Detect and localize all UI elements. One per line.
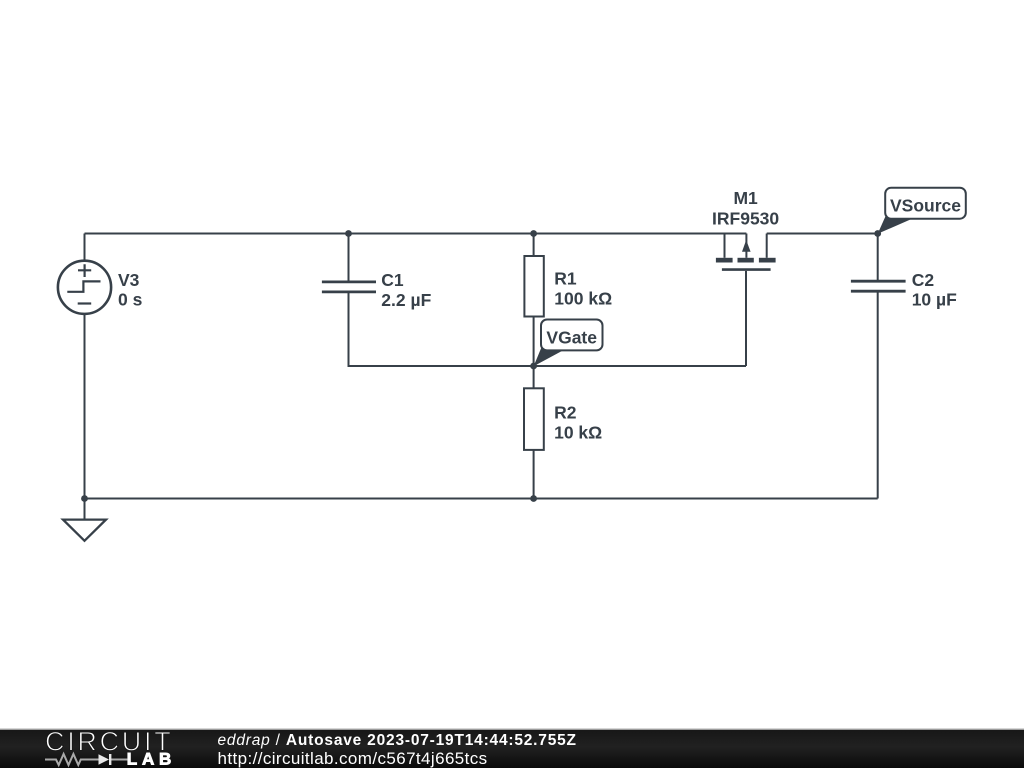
svg-text:M1IRF9530: M1IRF9530: [712, 188, 779, 228]
svg-text:http://circuitlab.com/c567t4j6: http://circuitlab.com/c567t4j665tcs: [218, 749, 488, 768]
resistor R2: [524, 388, 544, 450]
transistor M1 PMOS body: [716, 234, 776, 270]
svg-text:VSource: VSource: [890, 196, 961, 216]
logo resistor-diode squiggle: [45, 754, 128, 765]
wire R1 top lead: [533, 234, 535, 257]
svg-text:C210 µF: C210 µF: [912, 270, 957, 310]
capacitor C2: [851, 281, 906, 291]
wire C1 bottom lead to node VGate: [349, 293, 747, 366]
junction dot C1 top: [345, 230, 352, 237]
svg-text:eddrap / Autosave 2023-07-19T1: eddrap / Autosave 2023-07-19T14:44:52.75…: [218, 732, 577, 749]
wire V3 bottom lead: [84, 314, 86, 499]
ground: [63, 520, 106, 541]
junction dot R2 bottom: [530, 495, 537, 502]
svg-text:LAB: LAB: [127, 750, 176, 768]
wire C2 top lead: [877, 234, 879, 281]
voltage source V3: [58, 261, 111, 314]
wire R1 bottom lead: [533, 317, 535, 367]
svg-text:V30 s: V30 s: [118, 270, 143, 310]
node VSource flag: [878, 188, 966, 234]
resistor R1: [524, 256, 543, 317]
footer bar: [0, 730, 1024, 768]
node VGate flag: [534, 320, 603, 367]
junction dot VGate: [530, 363, 537, 370]
junction dot VSource: [874, 230, 881, 237]
wire M1 gate lead: [745, 271, 747, 366]
wire C2 bottom lead: [877, 292, 879, 498]
svg-text:R210 kΩ: R210 kΩ: [554, 403, 602, 443]
capacitor C1: [322, 282, 376, 292]
svg-text:C12.2 µF: C12.2 µF: [381, 270, 431, 310]
wire bottom rail: [85, 498, 878, 500]
junction dot R1 top: [530, 230, 537, 237]
wire R2 bottom lead: [533, 450, 535, 499]
wire top rail left: [85, 233, 747, 235]
wire R2 top lead: [533, 366, 535, 388]
logo diode symbol: [99, 754, 111, 765]
wire ground stub: [84, 499, 86, 520]
junction dot ground: [81, 495, 88, 502]
wire V3 top lead: [84, 234, 86, 261]
svg-text:VGate: VGate: [546, 327, 597, 347]
svg-text:R1100 kΩ: R1100 kΩ: [554, 269, 612, 309]
wire top rail right: [767, 233, 878, 235]
wire C1 top lead: [348, 234, 350, 281]
